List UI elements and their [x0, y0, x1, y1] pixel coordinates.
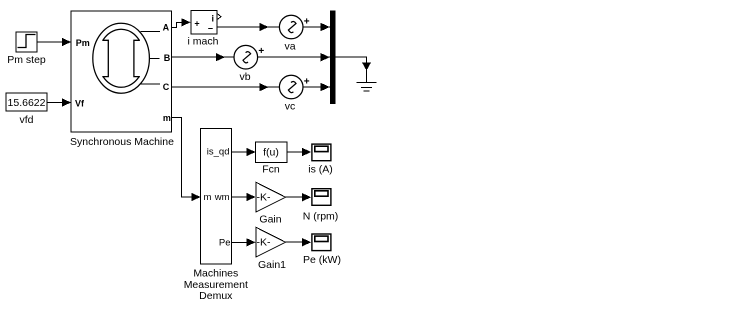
svg-text:wm: wm	[214, 192, 230, 203]
svg-text:Pm: Pm	[76, 38, 90, 48]
svg-text:Gain: Gain	[259, 214, 281, 226]
svg-text:Demux: Demux	[199, 290, 233, 302]
svg-text:i: i	[211, 14, 214, 24]
svg-text:Pe: Pe	[219, 238, 231, 249]
svg-text:+: +	[304, 77, 310, 88]
svg-text:is_qd: is_qd	[207, 147, 230, 158]
svg-text:−: −	[208, 24, 213, 34]
svg-text:15.6622: 15.6622	[8, 97, 46, 109]
svg-text:+: +	[194, 19, 199, 29]
svg-text:Machines: Machines	[193, 267, 238, 279]
svg-text:vfd: vfd	[19, 114, 33, 126]
svg-text:C: C	[163, 82, 170, 92]
svg-text:Gain1: Gain1	[258, 259, 286, 271]
svg-text:+: +	[258, 46, 264, 57]
svg-text:m: m	[204, 192, 212, 203]
svg-text:Fcn: Fcn	[262, 164, 280, 176]
svg-text:vb: vb	[239, 71, 250, 83]
svg-text:is (A): is (A)	[308, 164, 333, 176]
svg-text:A: A	[163, 22, 170, 32]
svg-text:Vf: Vf	[75, 99, 85, 109]
svg-text:Pe (kW): Pe (kW)	[303, 254, 341, 266]
svg-text:N (rpm): N (rpm)	[303, 211, 339, 223]
svg-text:-K-: -K-	[257, 192, 272, 204]
svg-text:i mach: i mach	[188, 36, 219, 48]
svg-text:Pm step: Pm step	[7, 54, 46, 66]
svg-text:Synchronous Machine: Synchronous Machine	[70, 136, 174, 148]
svg-text:+: +	[304, 17, 310, 28]
svg-text:-K-: -K-	[257, 237, 272, 249]
svg-text:va: va	[284, 41, 295, 53]
svg-text:m: m	[163, 113, 171, 123]
svg-text:Measurement: Measurement	[184, 279, 248, 291]
svg-text:B: B	[164, 53, 171, 63]
svg-text:f(u): f(u)	[263, 147, 279, 159]
svg-text:vc: vc	[285, 101, 296, 113]
